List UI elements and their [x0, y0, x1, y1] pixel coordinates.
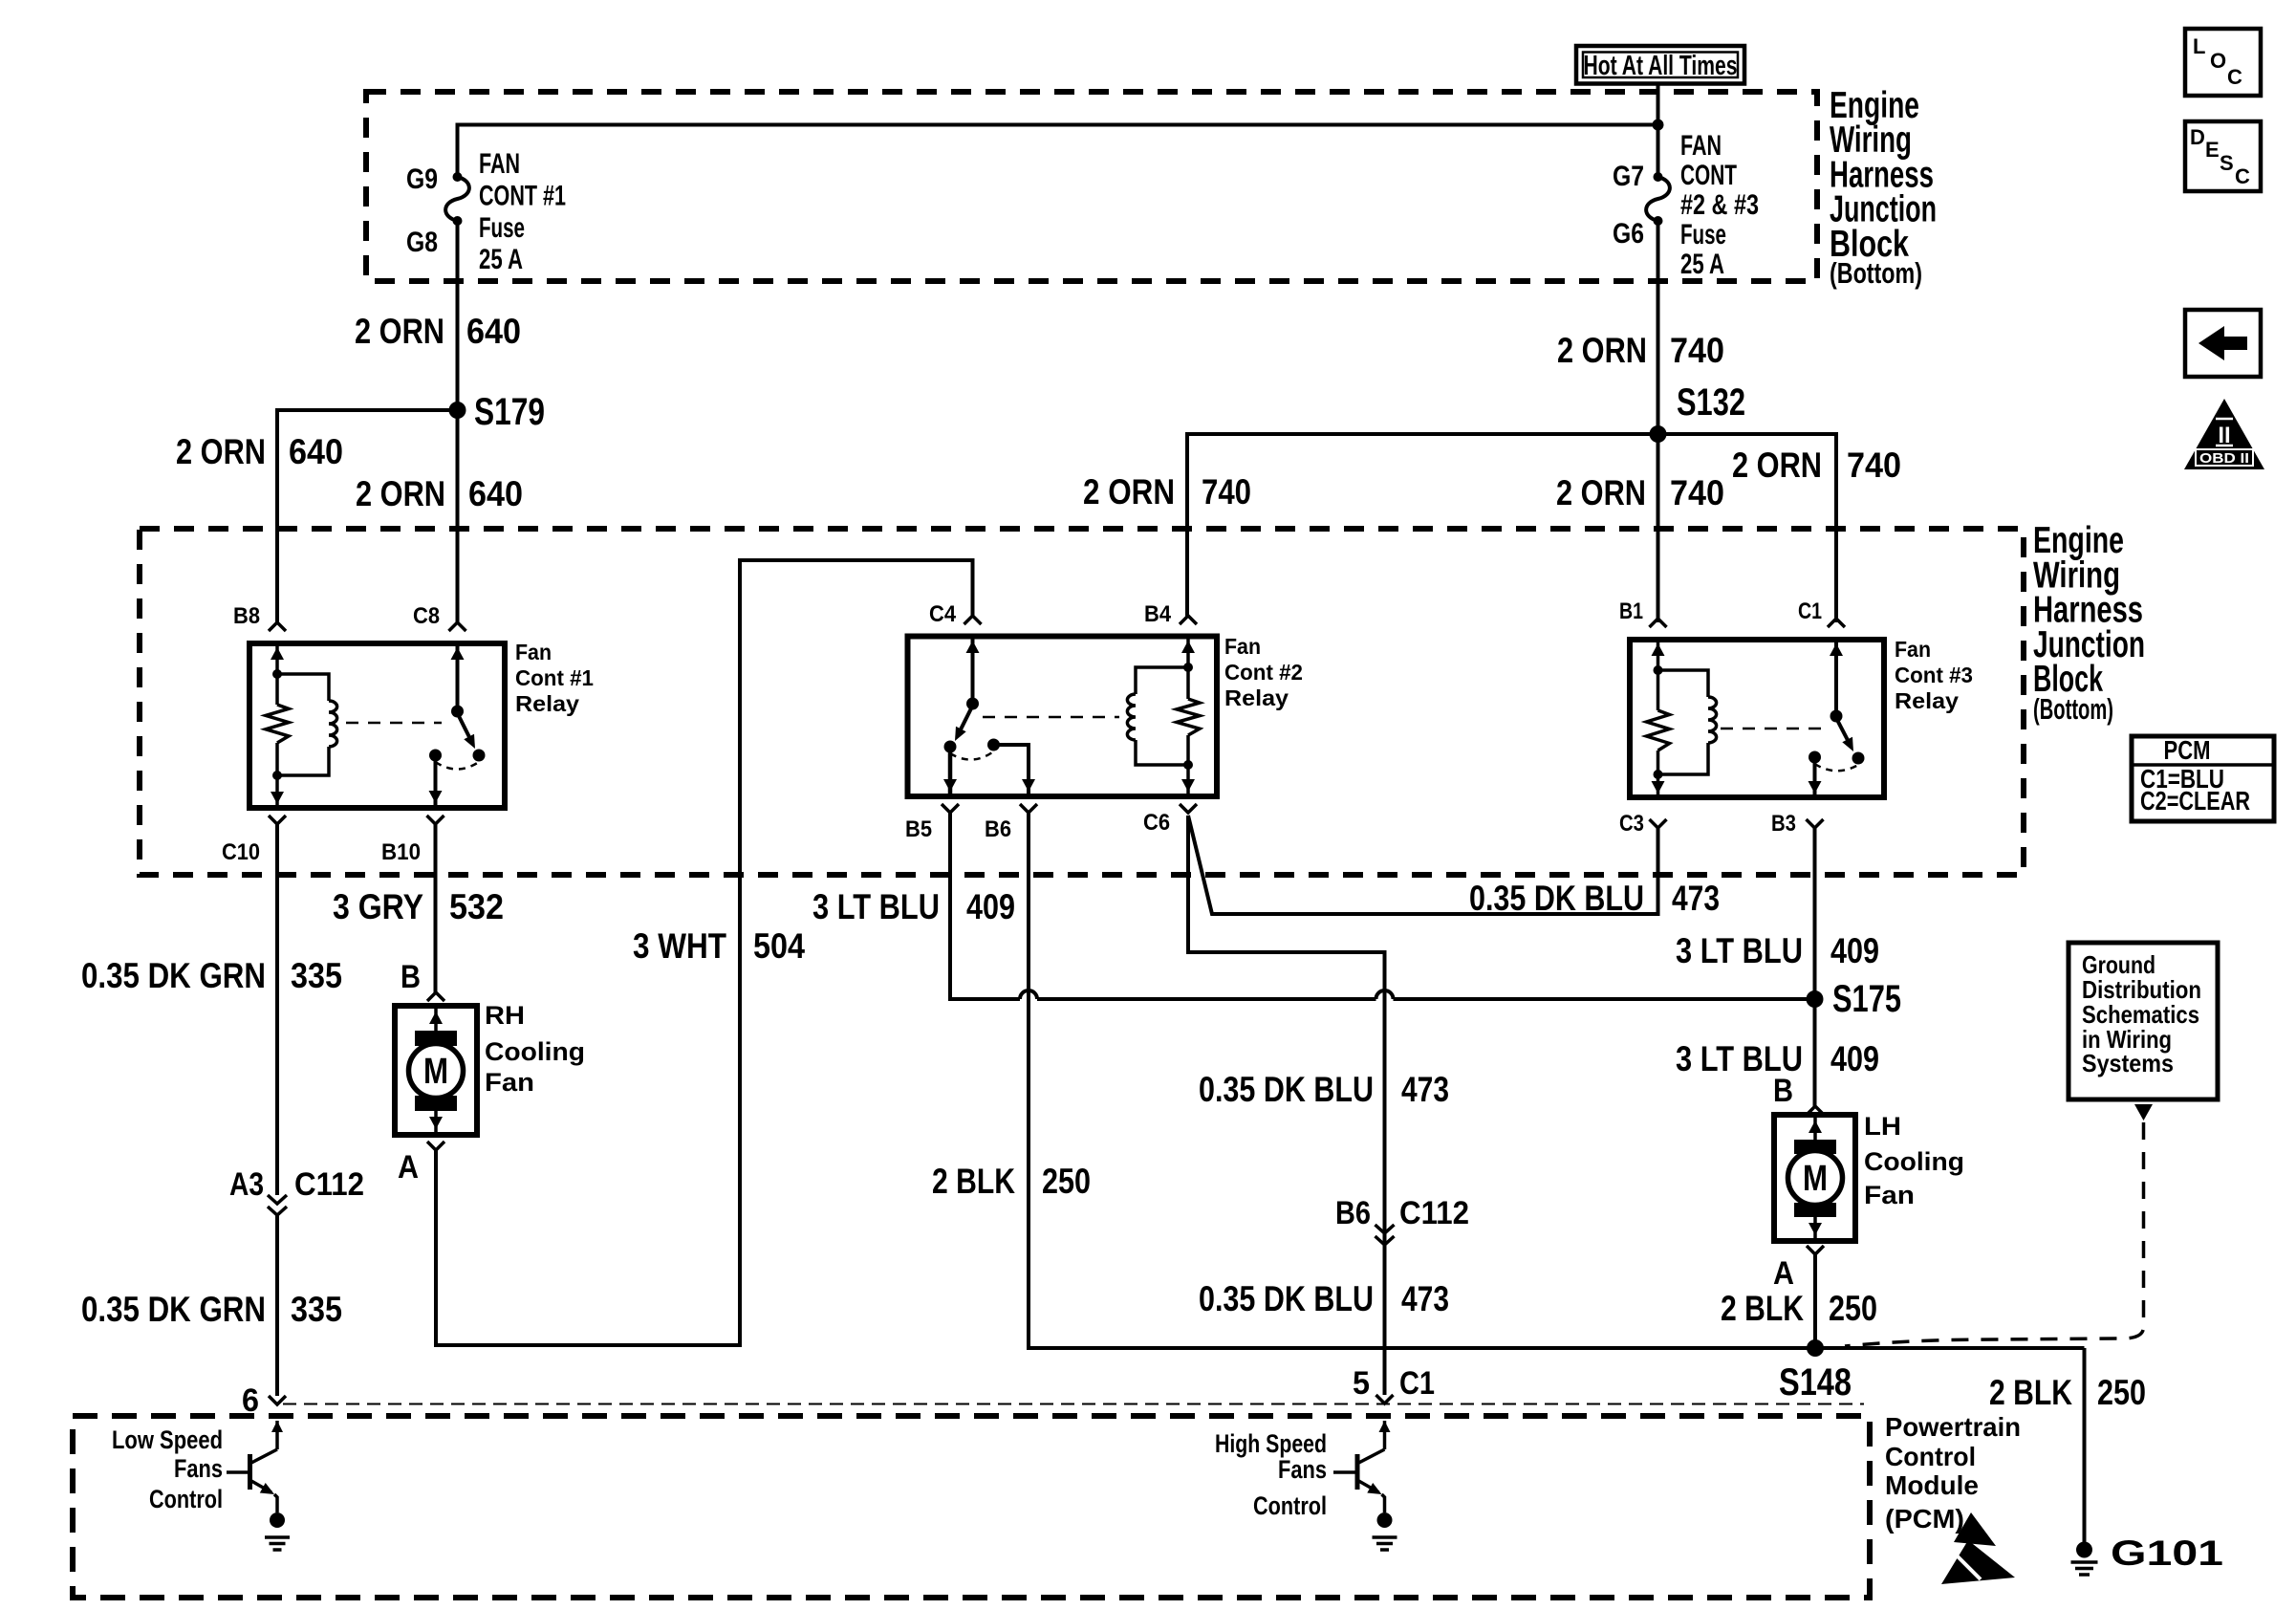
svg-text:Control: Control	[149, 1485, 223, 1513]
svg-text:2 ORN: 2 ORN	[355, 312, 444, 351]
wire label 2 BLK 250 (LH fan A)	[1721, 1289, 1877, 1328]
relay 3 coil bottom junction dot	[1654, 770, 1663, 779]
svg-text:Fan: Fan	[1895, 637, 1931, 662]
relay 3 switch output to B3 with arrow	[1813, 757, 1817, 797]
svg-text:Fans: Fans	[1278, 1455, 1327, 1484]
ESD warning symbol	[1941, 1512, 2015, 1584]
svg-text:C112: C112	[1399, 1195, 1469, 1231]
svg-text:Cont #3: Cont #3	[1895, 663, 1973, 687]
RH fan A chevron	[427, 1142, 444, 1150]
svg-text:Cooling: Cooling	[485, 1037, 585, 1066]
svg-text:(PCM): (PCM)	[1885, 1504, 1964, 1534]
svg-text:C3: C3	[1619, 811, 1644, 837]
wire 2 ORN 740 from fuse G6 down to S132 and to B1	[1657, 221, 1660, 622]
relay Fan Cont #1 box	[249, 643, 505, 808]
svg-text:2 ORN: 2 ORN	[1557, 331, 1647, 370]
ground distribution dashed reference line to S148	[1845, 1122, 2144, 1346]
svg-text:O: O	[2210, 49, 2226, 73]
relay 1 pin C8 chevron	[449, 622, 466, 631]
relay 3 switch common from C1	[1834, 640, 1838, 716]
wire label 2 ORN 740 (B4 branch)	[1083, 472, 1251, 511]
svg-text:PCM: PCM	[2164, 735, 2211, 765]
svg-text:3 WHT: 3 WHT	[633, 926, 726, 966]
wire label 0.35 DK BLU 473 (middle)	[1199, 1070, 1449, 1109]
fan name label RH Cooling Fan	[485, 1001, 585, 1097]
svg-text:B4: B4	[1144, 601, 1172, 627]
svg-text:A: A	[1773, 1255, 1794, 1292]
wire 2 BLK 250 from LH fan A down to S148	[1813, 1254, 1817, 1348]
splice S132	[1650, 425, 1667, 443]
svg-text:(Bottom): (Bottom)	[2033, 692, 2113, 726]
relay 1 switch common from C8	[456, 643, 460, 711]
svg-text:FAN: FAN	[1680, 130, 1722, 162]
relay Fan Cont #2 box	[908, 637, 1218, 797]
svg-text:2 BLK: 2 BLK	[1989, 1373, 2072, 1412]
svg-text:C1: C1	[1399, 1365, 1435, 1402]
svg-text:2 BLK: 2 BLK	[1721, 1289, 1804, 1328]
svg-text:OBD II: OBD II	[2199, 450, 2249, 467]
LH fan A chevron	[1807, 1246, 1824, 1254]
PCM pin 5 chevron	[1376, 1395, 1394, 1403]
relay 3 switch NC contact dot	[1809, 751, 1821, 764]
wire label 2 ORN 740 (below S132)	[1556, 473, 1724, 512]
relay 3 pin C3 chevron	[1650, 819, 1667, 828]
relay 1 coil feed line from B8	[275, 643, 279, 674]
relay 3 switch arm	[1836, 718, 1851, 746]
wire label 2 ORN 640 (left branch)	[176, 432, 343, 471]
relay 3 pin B1 chevron	[1650, 619, 1667, 627]
Hot At All Times box	[1576, 46, 1744, 84]
fuse FAN CONT #1 (G9-G8) 25 A	[445, 172, 469, 226]
relay 1 coil output to C10 with arrow	[275, 775, 279, 808]
svg-text:B6: B6	[1335, 1195, 1371, 1231]
motor LH Cooling Fan	[1774, 1115, 1855, 1241]
relay 1 pin B10 chevron	[427, 816, 444, 824]
svg-text:640: 640	[466, 312, 521, 351]
svg-text:473: 473	[1401, 1070, 1449, 1109]
svg-text:3 LT BLU: 3 LT BLU	[1676, 931, 1803, 970]
relay 2 coil-switch dashed link	[983, 716, 1119, 719]
label High Speed Fans Control	[1215, 1429, 1327, 1520]
relay Fan Cont #3 box	[1630, 640, 1884, 797]
LH fan B chevron	[1807, 1106, 1824, 1115]
svg-text:CONT: CONT	[1680, 160, 1737, 191]
svg-text:B5: B5	[905, 816, 932, 842]
svg-text:25 A: 25 A	[1680, 249, 1724, 280]
svg-text:250: 250	[1829, 1289, 1877, 1328]
relay 2 coil (parallel winding)	[1127, 667, 1188, 765]
svg-text:740: 740	[1847, 446, 1901, 485]
svg-text:Powertrain: Powertrain	[1885, 1412, 2021, 1442]
wire label 2 ORN 640 (top)	[355, 312, 521, 351]
wire label 2 BLK 250 (B6)	[932, 1162, 1091, 1201]
svg-text:250: 250	[1042, 1162, 1091, 1201]
svg-text:740: 740	[1202, 472, 1251, 511]
svg-text:B: B	[401, 959, 421, 995]
ground at high speed transistor emitter	[1373, 1512, 1397, 1550]
svg-text:Control: Control	[1253, 1491, 1327, 1520]
svg-text:CONT #1: CONT #1	[479, 180, 566, 211]
svg-text:Control: Control	[1885, 1442, 1976, 1471]
svg-text:B10: B10	[381, 839, 421, 865]
svg-text:2 ORN: 2 ORN	[1556, 473, 1646, 512]
relay 1 pin C10 chevron	[269, 816, 286, 824]
fuse 1 value label FAN CONT #1 Fuse 25 A	[479, 148, 566, 275]
svg-text:C8: C8	[413, 603, 440, 629]
transistor High Speed Fans Control	[1333, 1421, 1391, 1512]
relay 1 coil bottom junction dot	[272, 771, 282, 780]
svg-text:B3: B3	[1771, 811, 1796, 837]
wire label 0.35 DK GRN 335 (lower)	[81, 1290, 342, 1329]
svg-text:Relay: Relay	[1224, 685, 1289, 710]
svg-text:FAN: FAN	[479, 148, 520, 180]
relay 1 coil (parallel winding)	[277, 674, 337, 775]
svg-text:Relay: Relay	[515, 691, 579, 716]
relay 3 switch travel dashed arc	[1815, 764, 1859, 771]
LOC reference box	[2185, 29, 2261, 96]
svg-text:Fan: Fan	[1224, 634, 1261, 659]
wire 2 BLK 250 from relay 2 B6 down to S148 junction	[1029, 813, 2085, 1348]
label Engine Wiring Harness Junction Block (Bottom) middle right	[2033, 520, 2145, 726]
svg-text:0.35 DK BLU: 0.35 DK BLU	[1199, 1279, 1374, 1318]
svg-text:B8: B8	[233, 603, 260, 629]
svg-text:473: 473	[1672, 879, 1720, 918]
svg-text:C1: C1	[1798, 598, 1822, 624]
relay 1 switch travel dashed arc	[436, 762, 480, 770]
svg-text:#2 & #3: #2 & #3	[1680, 189, 1759, 221]
svg-text:740: 740	[1670, 473, 1724, 512]
fan name label LH Cooling Fan	[1864, 1112, 1964, 1209]
relay 2 switch travel dashed arc	[950, 751, 994, 760]
motor RH Cooling Fan	[395, 1006, 477, 1135]
relay 3 coil-switch dashed link	[1721, 728, 1828, 730]
svg-text:C4: C4	[929, 601, 957, 627]
svg-text:E: E	[2205, 138, 2220, 162]
wire label 3 WHT 504	[633, 926, 805, 966]
relay 1 coil top junction dot	[272, 669, 282, 679]
wire 2 BLK 250 from S148 right and down to G101	[2083, 1348, 2087, 1542]
svg-text:0.35 DK GRN: 0.35 DK GRN	[81, 1290, 266, 1329]
wire label 2 ORN 640 (below S179)	[356, 474, 523, 513]
wire branch from S179 left to B8	[277, 410, 458, 622]
wire label 3 GRY 532	[333, 887, 504, 926]
wire label 3 LT BLU 409 (below S175)	[1676, 1039, 1879, 1078]
svg-text:250: 250	[2097, 1373, 2146, 1412]
svg-text:G8: G8	[406, 227, 438, 258]
svg-text:D: D	[2190, 125, 2205, 149]
svg-text:409: 409	[1830, 931, 1879, 970]
relay 3 pin C1 chevron	[1828, 619, 1845, 627]
relay 2 coil feed from B4	[1186, 637, 1190, 668]
wire 0.35 DK BLU 473 jumper from relay 2 C6 to relay 3 C3	[1188, 816, 1658, 914]
relay 2 NO contact wire to B6 with arrow	[994, 745, 1029, 796]
label Low Speed Fans Control	[112, 1425, 223, 1513]
relay 2 pin B4 chevron	[1180, 616, 1197, 624]
svg-text:409: 409	[966, 887, 1015, 926]
wire 3 LT BLU 409 from relay 2 B5 down and right to S175 (with hops)	[950, 813, 1815, 999]
fuse 2 value label FAN CONT #2 & #3 Fuse 25 A	[1680, 130, 1759, 280]
svg-text:M: M	[1803, 1159, 1828, 1199]
svg-text:Fuse: Fuse	[1680, 219, 1726, 250]
relay 2 switch pivot dot	[966, 698, 979, 710]
junction dot at top feed wire	[1653, 120, 1664, 131]
svg-text:Systems: Systems	[2082, 1049, 2174, 1077]
svg-text:640: 640	[468, 474, 523, 513]
svg-text:Module: Module	[1885, 1470, 1979, 1500]
wire from Hot At All Times down to fuse G7	[1657, 84, 1660, 175]
label Engine Wiring Harness Junction Block (Bottom) top right	[1830, 85, 1937, 290]
relay 2 switch NC contact dot	[944, 741, 957, 753]
wire branch from S132 left to B4	[1187, 434, 1658, 618]
relay 3 name label	[1895, 637, 1973, 713]
Powertrain Control Module dashed border	[73, 1416, 1870, 1598]
wire 2 ORN 640 from fuse G8 down to S179 and to C8	[456, 221, 460, 622]
RH fan B chevron	[427, 992, 444, 1001]
svg-text:Fans: Fans	[174, 1454, 223, 1483]
DESC reference box	[2185, 121, 2261, 191]
inline connector C112 pin A3 (double chevron)	[268, 1195, 287, 1215]
svg-text:3 GRY: 3 GRY	[333, 887, 423, 926]
svg-text:L: L	[2193, 34, 2205, 58]
wire 0.35 DK GRN 335 from relay 1 C10 down to PCM pin 6	[275, 824, 279, 1195]
relay 2 switch NO contact dot	[987, 739, 1000, 751]
svg-text:2 ORN: 2 ORN	[1732, 446, 1822, 485]
svg-text:C: C	[2227, 65, 2242, 89]
svg-text:Fan: Fan	[485, 1068, 534, 1097]
svg-text:Cont #2: Cont #2	[1224, 660, 1303, 685]
svg-text:2 ORN: 2 ORN	[1083, 472, 1175, 511]
svg-text:2 ORN: 2 ORN	[176, 432, 266, 471]
svg-text:C10: C10	[222, 839, 260, 865]
relay 2 switch common from C4	[971, 637, 975, 705]
svg-text:High Speed: High Speed	[1215, 1429, 1327, 1458]
wire 3 WHT 504 from relay 2 C4 up-left-down to RH fan A	[436, 560, 973, 1345]
relay 2 switch arm	[958, 706, 973, 735]
wire top horizontal feed from fuse 1 to fuse 2	[458, 125, 1658, 177]
label Powertrain Control Module (PCM)	[1885, 1412, 2021, 1534]
splice S148	[1807, 1339, 1824, 1357]
relay 3 coil output to C3 with arrow	[1657, 774, 1660, 797]
svg-text:Relay: Relay	[1895, 688, 1959, 713]
wire branch from S132 right to C1	[1658, 434, 1837, 622]
relay 1 resistor	[266, 705, 289, 743]
splice S179	[449, 402, 466, 419]
svg-text:C112: C112	[294, 1166, 364, 1203]
svg-text:Fan: Fan	[515, 640, 552, 664]
svg-text:S132: S132	[1677, 381, 1745, 424]
svg-text:Low Speed: Low Speed	[112, 1425, 223, 1454]
svg-text:C2=CLEAR: C2=CLEAR	[2140, 786, 2250, 816]
relay 3 switch pivot dot	[1830, 710, 1843, 723]
svg-text:532: 532	[449, 887, 504, 926]
svg-text:335: 335	[291, 956, 342, 995]
svg-text:504: 504	[753, 926, 805, 966]
ground distribution pointer arrowhead	[2134, 1104, 2153, 1120]
wire label 0.35 DK BLU 473 (jumper)	[1469, 879, 1720, 918]
svg-text:2 BLK: 2 BLK	[932, 1162, 1015, 1201]
svg-text:S179: S179	[474, 391, 545, 433]
relay 2 pin B5 chevron	[942, 804, 959, 813]
wire label 2 BLK 250 (G101 branch)	[1989, 1373, 2146, 1412]
relay 2 pin C6 chevron	[1180, 804, 1197, 813]
relay 2 coil output to C6 with arrow	[1186, 765, 1190, 796]
relay 3 pin B3 chevron	[1807, 819, 1824, 828]
svg-text:G7: G7	[1613, 161, 1644, 192]
svg-text:M: M	[423, 1052, 448, 1092]
relay 2 switch output to B5 with arrow	[948, 747, 953, 796]
thin dotted PCM interface line	[283, 1403, 1864, 1405]
wire 3 LT BLU 409 from relay 3 B3 down to S175 and LH fan B	[1813, 828, 1817, 1106]
relay 3 switch NO contact dot	[1852, 752, 1865, 765]
svg-text:(Bottom): (Bottom)	[1830, 256, 1922, 290]
wire 0.35 DK BLU 473 from relay 2 C6 down to C112 B6 and PCM pin 5	[1188, 816, 1385, 1395]
svg-text:S175: S175	[1832, 978, 1901, 1020]
relay 1 pin B8 chevron	[269, 622, 286, 631]
Ground Distribution Schematics note box	[2069, 943, 2218, 1099]
relay 1 switch arm	[458, 713, 473, 743]
svg-text:B: B	[1773, 1073, 1793, 1109]
relay 1 switch NC contact dot	[429, 750, 442, 762]
svg-text:G6: G6	[1613, 218, 1644, 250]
wire label 3 LT BLU 409 (B5)	[812, 887, 1015, 926]
svg-text:640: 640	[289, 432, 343, 471]
svg-text:Fuse: Fuse	[479, 212, 525, 244]
svg-text:2 ORN: 2 ORN	[356, 474, 445, 513]
svg-text:S: S	[2220, 151, 2234, 175]
svg-text:Hot At All Times: Hot At All Times	[1584, 51, 1738, 81]
svg-text:RH: RH	[485, 1001, 525, 1030]
splice S175	[1807, 990, 1824, 1008]
svg-text:25 A: 25 A	[479, 244, 523, 275]
relay 2 pin C4 chevron	[964, 616, 982, 624]
PCM pin 6 chevron	[269, 1396, 286, 1404]
PCM connector legend box	[2132, 735, 2274, 821]
relay 2 resistor	[1177, 699, 1200, 735]
svg-text:LH: LH	[1864, 1112, 1901, 1141]
wire 3 GRY 532 from relay 1 B10 down to RH fan B	[434, 824, 438, 992]
svg-text:B6: B6	[985, 816, 1011, 842]
junction block 2 dashed border (Engine Wiring Harness Junction Block bottom)	[140, 529, 2024, 875]
relay 1 switch output to B10 with arrow	[434, 755, 438, 808]
inline connector C112 pin B6 (double chevron)	[1375, 1225, 1395, 1245]
relay 2 pin B6 chevron	[1020, 804, 1037, 813]
svg-text:5: 5	[1353, 1365, 1370, 1402]
relay 3 coil top junction dot	[1654, 665, 1663, 675]
svg-text:A: A	[398, 1149, 419, 1186]
relay 2 coil top junction dot	[1183, 663, 1193, 672]
relay 2 coil bottom junction dot	[1183, 760, 1193, 770]
back arrow box	[2185, 310, 2261, 377]
relay 2 name label	[1224, 634, 1303, 710]
svg-text:740: 740	[1670, 331, 1724, 370]
svg-text:409: 409	[1830, 1039, 1879, 1078]
svg-text:0.35 DK BLU: 0.35 DK BLU	[1469, 879, 1644, 918]
svg-text:C6: C6	[1143, 810, 1170, 836]
relay 3 coil (parallel winding)	[1658, 670, 1717, 774]
svg-text:3 LT BLU: 3 LT BLU	[812, 887, 940, 926]
svg-text:Cooling: Cooling	[1864, 1147, 1964, 1176]
wire label 0.35 DK GRN 335 (upper)	[81, 956, 342, 995]
relay 1 switch pivot dot	[451, 706, 464, 718]
svg-text:G9: G9	[406, 163, 438, 195]
wire 0.35 DK GRN 335 below C112 to pin 6	[275, 1215, 279, 1396]
wire label 2 ORN 740 (above S132)	[1557, 331, 1724, 370]
relay 1 switch NO contact dot	[473, 750, 486, 762]
svg-text:S148: S148	[1779, 1361, 1852, 1403]
svg-text:Cont #1: Cont #1	[515, 665, 594, 690]
wire label 3 LT BLU 409 (above S175)	[1676, 931, 1879, 970]
relay 1 coil-switch dashed link	[346, 722, 442, 725]
ground at low speed transistor emitter	[265, 1512, 290, 1550]
svg-text:Fan: Fan	[1864, 1181, 1915, 1209]
svg-text:473: 473	[1401, 1279, 1449, 1318]
relay 1 name label	[515, 640, 594, 716]
svg-text:A3: A3	[229, 1166, 264, 1203]
svg-text:C: C	[2235, 164, 2250, 188]
svg-text:G101: G101	[2111, 1534, 2223, 1573]
svg-text:0.35 DK BLU: 0.35 DK BLU	[1199, 1070, 1374, 1109]
transistor Low Speed Fans Control	[227, 1421, 283, 1512]
svg-text:B1: B1	[1619, 598, 1643, 624]
relay 3 resistor	[1647, 710, 1670, 751]
wire label 2 ORN 740 (C1 branch)	[1732, 446, 1901, 485]
svg-text:335: 335	[291, 1290, 342, 1329]
ground G101	[2071, 1542, 2098, 1576]
wire label 0.35 DK BLU 473 (lower)	[1199, 1279, 1449, 1318]
fuse FAN CONT #2 & #3 (G7-G6) 25 A	[1646, 172, 1670, 226]
OBD II triangle icon	[2184, 399, 2264, 469]
junction block 1 dashed border (Engine Wiring Harness Junction Block top)	[366, 92, 1817, 281]
svg-text:0.35 DK GRN: 0.35 DK GRN	[81, 956, 266, 995]
relay 3 coil feed from B1	[1657, 640, 1660, 670]
